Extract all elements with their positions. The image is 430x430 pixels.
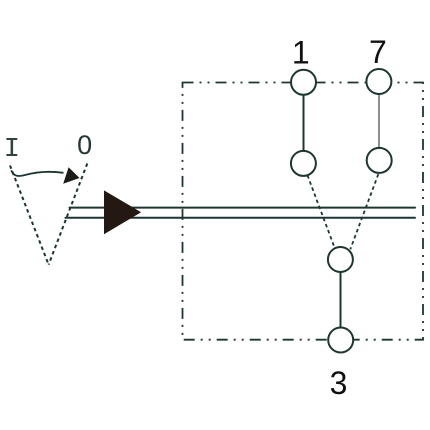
actuator leg position I (dashed) [10,166,49,265]
pin 7 terminal circle [366,69,391,94]
svg-text:I: I [4,135,20,165]
rotation arrowhead [63,167,79,184]
upper-right fixed contact circle [367,148,392,173]
wire pin 7 to upper-right fixed contact (gray) [378,94,380,148]
upper-left fixed contact circle [291,151,316,176]
common moving contact circle [328,247,353,272]
wire common contact to pin 3 [340,272,342,328]
svg-text:0: 0 [77,130,92,160]
rotation direction arc from I to 0 [11,170,63,176]
pin 3 terminal circle [328,328,353,353]
svg-text:1: 1 [292,35,310,71]
contact bridge dashed from right contact to common [350,174,378,249]
enclosure dash-dot-dot boundary box [183,83,424,340]
svg-text:7: 7 [369,34,387,70]
drive arrow triangle [104,190,141,234]
wire pin 1 to upper-left fixed contact [303,95,305,151]
contact bridge dashed from left contact to common [308,175,335,247]
mechanical linkage double line [66,208,416,218]
pin 1 terminal circle [291,70,316,95]
svg-text:3: 3 [330,365,348,401]
actuator leg position 0 (dashed) [49,164,88,265]
